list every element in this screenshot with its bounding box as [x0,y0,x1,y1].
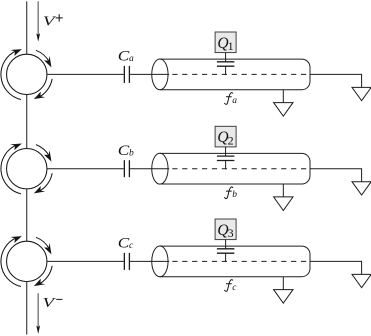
wire: main vertical bus segment 3 [26,189,28,241]
coupling capacitor from Q3 box into cavity [217,240,235,262]
ground under cavity row 3 [274,277,293,304]
svg-text:1: 1 [228,39,234,53]
label fa (cavity resonance) [224,93,233,105]
wire: main vertical bus segment 4 [26,282,28,335]
wire: circulator U3 to capacitor Cc [47,260,124,262]
coupling capacitor from Q2 box into cavity [217,147,235,169]
wire: cavity output to right ground row 3 [310,261,362,274]
wire: cavity output to right ground row 2 [310,169,362,182]
wire: capacitor Ca to cavity input [130,73,169,75]
cavity center conductor (dashed) row 1 [172,73,309,75]
wire: circulator U2 to capacitor Cb [47,168,124,170]
cavity resonator body (cylinder) row 3 [160,246,310,277]
svg-text:V: V [43,15,57,30]
coupling capacitor from Q1 box into cavity [217,53,235,75]
wire: circulator U1 to capacitor Ca [47,73,124,75]
capacitor Cc [124,253,129,270]
circulator U2 [1,143,52,193]
capacitor Ca [124,66,129,83]
label fc (cavity resonance) [224,280,233,292]
wire: main vertical bus segment 2 [26,95,28,149]
svg-text:2: 2 [228,134,234,148]
label fb (cavity resonance) [224,187,233,199]
wire: main vertical bus segment 1 [26,1,28,54]
ground at right row 2 [352,182,371,195]
ground at right row 3 [352,274,371,287]
svg-text:3: 3 [228,226,234,240]
cavity resonator body (cylinder) row 2 [160,153,310,184]
Q1 coupling box [215,32,236,53]
wire: capacitor Cb to cavity input [130,168,169,170]
svg-text:b: b [232,190,237,200]
circulator U3 [1,236,52,286]
wire: cavity output to right ground row 1 [310,74,362,87]
wire: capacitor Cc to cavity input [130,260,169,262]
ground under cavity row 1 [274,90,293,117]
svg-text:b: b [129,149,134,159]
svg-text:a: a [129,54,134,64]
cavity left end cap ellipse row 3 [152,246,168,277]
svg-text:V: V [43,296,57,311]
capacitor Cb [124,160,129,177]
svg-text:a: a [232,96,237,106]
V+ supply arrow [36,1,40,42]
cavity left end cap ellipse row 2 [152,153,168,184]
cavity resonator body (cylinder) row 1 [160,59,310,90]
cavity left end cap ellipse row 1 [152,59,168,90]
ground under cavity row 2 [274,184,293,211]
Q3 coupling box [215,219,236,240]
cavity center conductor (dashed) row 2 [172,168,309,170]
circulator U1 [1,49,52,99]
ground at right row 1 [352,87,371,100]
cavity center conductor (dashed) row 3 [172,260,309,262]
V- supply arrow [36,293,40,334]
Q2 coupling box [215,126,236,147]
